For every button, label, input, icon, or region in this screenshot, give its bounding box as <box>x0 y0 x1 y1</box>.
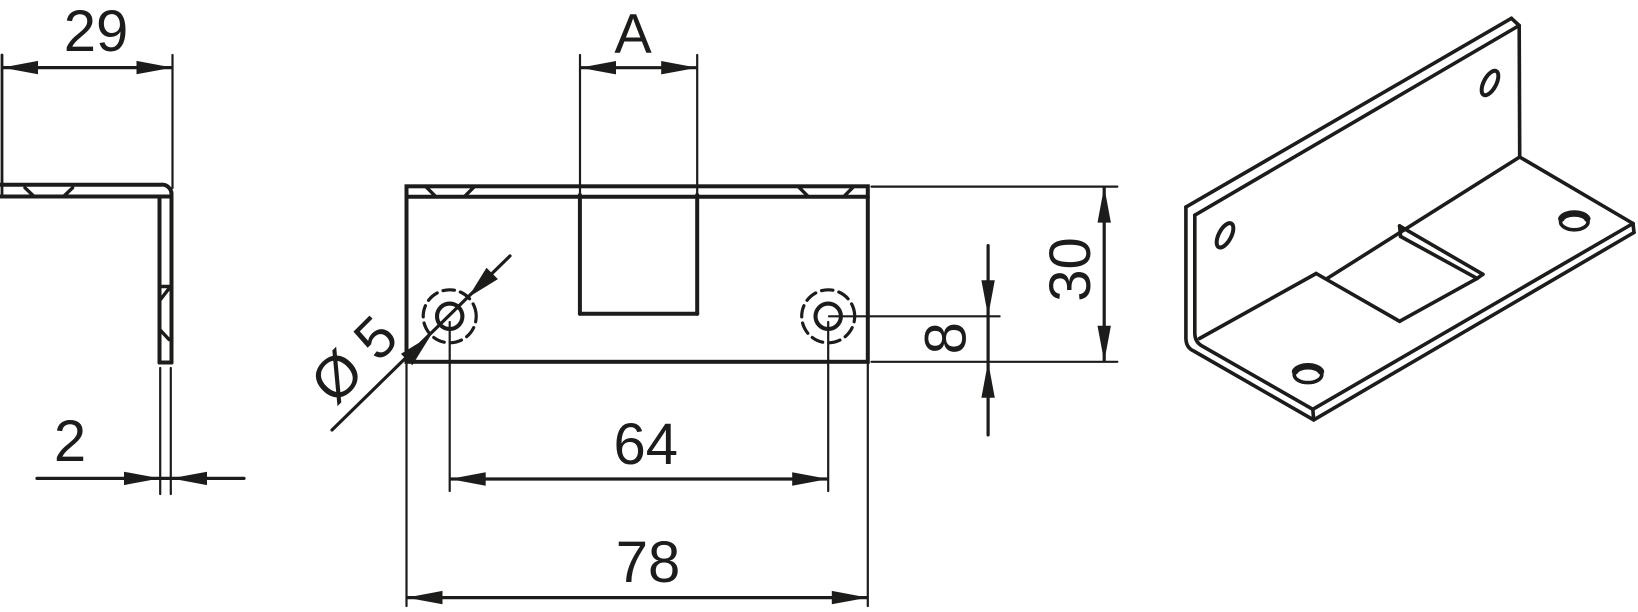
dimension 29 arrow left <box>2 61 38 74</box>
bend mark right on horizontal leg <box>64 188 73 197</box>
hole right solid circle <box>816 304 841 329</box>
iso wall hole left ellipse <box>1213 221 1237 250</box>
hole left solid circle <box>437 304 462 329</box>
dimension 29 line <box>3 66 172 69</box>
iso notch bottom edge <box>1400 278 1478 321</box>
dimension 2 extension line left <box>159 368 161 494</box>
iso floor hole right top thickness arc <box>1561 213 1587 218</box>
iso wall right vertical edge <box>1517 26 1521 158</box>
dimension 2 arrow left pointing right <box>124 472 160 485</box>
left edge extension line down <box>405 363 407 606</box>
top edge extension line right <box>872 186 1118 188</box>
slot bottom edge <box>580 312 697 316</box>
iso floor front-left corner vertical <box>1311 409 1315 420</box>
hole left dashed circle <box>423 290 476 343</box>
svg-text:Ø 5: Ø 5 <box>298 304 410 416</box>
dimension A extension line right <box>696 55 698 193</box>
dimension A extension line left <box>579 55 581 193</box>
iso floor hole right ellipse <box>1561 214 1589 230</box>
right edge extension line down <box>867 363 869 606</box>
bend mark pair left on top fold: right diagonal <box>465 187 474 196</box>
dimension 78 line <box>408 596 867 599</box>
iso wall left outer vertical edge with bend <box>1186 207 1314 420</box>
iso notch right cut face lower edge <box>1401 237 1478 279</box>
iso bend tangent line left segment <box>1200 274 1317 339</box>
dimension 30 arrow top <box>1098 187 1111 223</box>
dimension 29 arrow right <box>137 61 173 74</box>
svg-text:A: A <box>614 2 652 65</box>
dimension 2 arrow right pointing left <box>171 472 207 485</box>
dimension 64 arrow left <box>450 472 486 485</box>
L-profile outer contour <box>0 185 172 363</box>
dimension 8 upper line <box>986 246 989 435</box>
iso wall top edge inner <box>1195 26 1519 216</box>
L-profile inner contour <box>0 197 171 363</box>
iso wall top edge outer <box>1186 18 1512 207</box>
dimension A arrow right <box>661 61 697 74</box>
bend mark pair right on top fold: right diagonal <box>844 187 853 196</box>
dimension 78 arrow left <box>407 591 443 604</box>
plate outline front view <box>407 186 868 361</box>
iso wall left inner vertical edge with bend <box>1195 215 1313 409</box>
bottom edge extension line right <box>872 361 1118 363</box>
dimension 8 arrow upper pointing down <box>981 280 994 316</box>
break diagonal upper on vertical leg <box>161 289 170 300</box>
dimension 30 line <box>1103 188 1106 361</box>
iso bend tangent line right segment <box>1327 157 1520 279</box>
svg-text:30: 30 <box>1038 237 1103 302</box>
hole right centre extension line down <box>827 322 829 491</box>
iso notch left edge <box>1316 274 1399 322</box>
iso floor front top edge <box>1313 224 1633 410</box>
iso notch right cut face end <box>1477 274 1483 278</box>
dimension 8 arrow lower pointing up <box>981 362 994 398</box>
slot right edge <box>695 195 699 314</box>
iso floor right corner vertical <box>1633 224 1634 233</box>
break tick on vertical leg <box>160 285 172 288</box>
dimension 29 extension line left <box>1 55 4 197</box>
top fold inner line <box>407 195 868 199</box>
dimension 64 arrow right <box>792 472 828 485</box>
hole centre line extension right <box>829 315 1000 317</box>
hole right dashed circle <box>802 290 855 343</box>
break diagonal lower on vertical leg <box>160 330 169 340</box>
bend mark left on horizontal leg <box>25 188 34 197</box>
iso floor front bottom edge <box>1314 233 1634 420</box>
dimension 30 arrow bottom <box>1098 326 1111 362</box>
dimension A arrow left <box>580 61 616 74</box>
svg-text:8: 8 <box>914 322 979 354</box>
diameter leader line <box>332 256 510 430</box>
diameter leader arrow lower pointing to hole <box>401 336 431 366</box>
svg-text:29: 29 <box>64 0 129 64</box>
dimension 2 line <box>37 477 244 480</box>
bend mark pair right on top fold: left diagonal <box>799 187 808 196</box>
dimension 64 line <box>451 477 827 480</box>
svg-text:78: 78 <box>616 530 681 595</box>
dimension 78 arrow right <box>832 591 868 604</box>
diameter leader arrow upper pointing to hole <box>468 268 498 298</box>
iso floor right end top edge <box>1520 157 1633 224</box>
iso floor hole left top thickness arc <box>1295 366 1321 371</box>
hole left centre extension line down <box>449 322 451 491</box>
iso wall hole right ellipse <box>1478 68 1502 97</box>
L-profile bottom end cap <box>160 361 172 365</box>
iso wall apex corner <box>1511 18 1519 25</box>
bend mark pair left on top fold: left diagonal <box>427 187 436 196</box>
svg-text:2: 2 <box>54 409 86 474</box>
dimension 29 extension line right <box>171 55 173 188</box>
svg-text:64: 64 <box>614 412 679 477</box>
iso floor hole left ellipse <box>1294 367 1322 383</box>
iso notch right cut face step <box>1400 226 1401 237</box>
dimension A line <box>581 66 696 69</box>
slot left edge <box>578 195 582 314</box>
iso notch right cut face upper edge <box>1400 226 1483 274</box>
dimension 2 extension line right <box>170 368 172 494</box>
